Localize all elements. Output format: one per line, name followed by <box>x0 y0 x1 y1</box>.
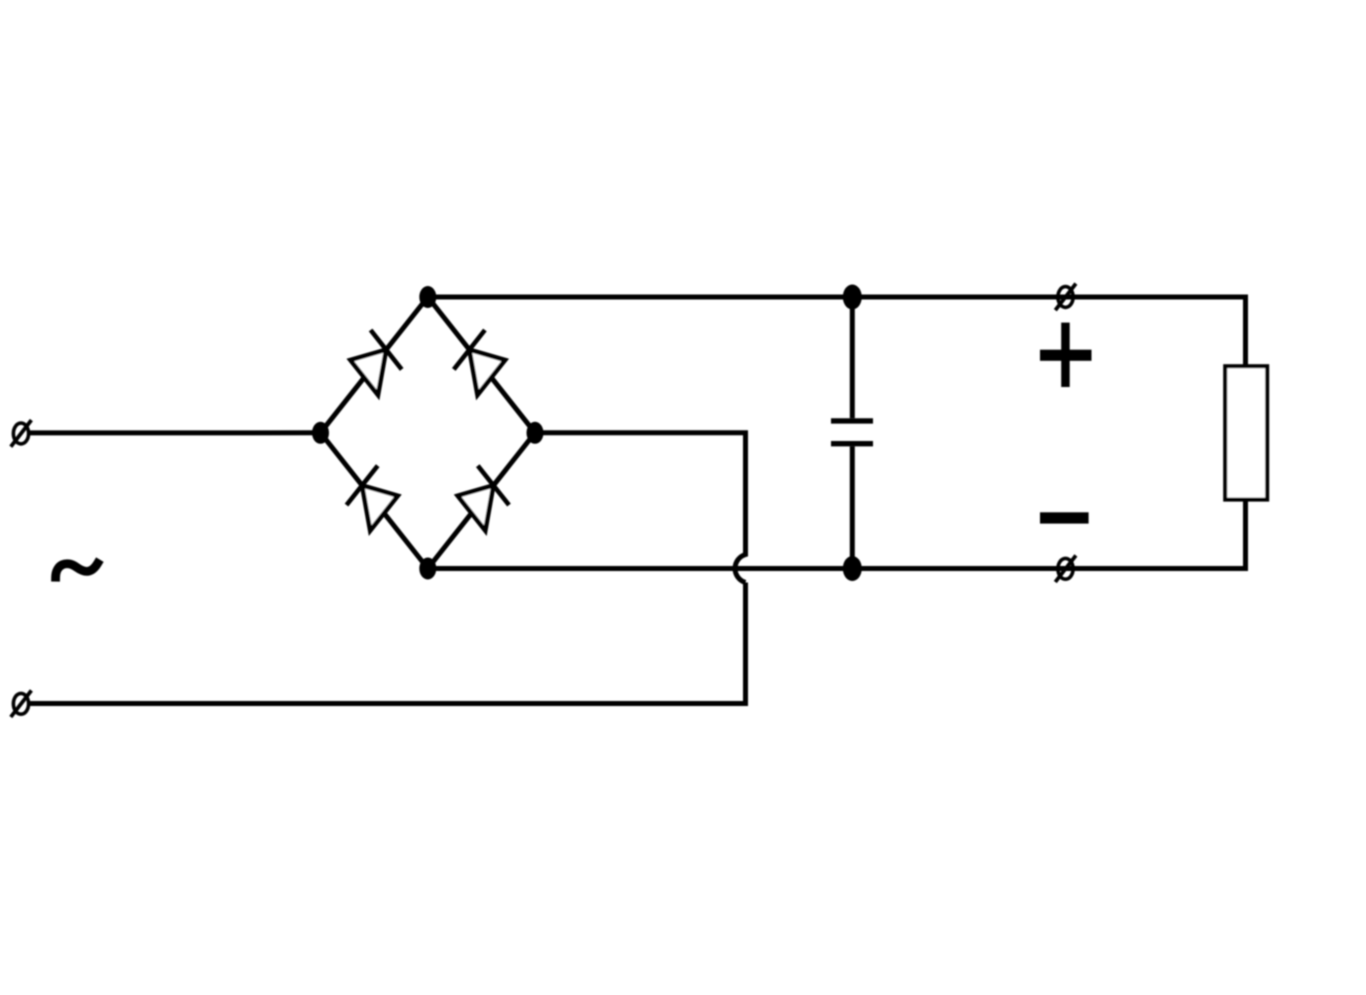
node bridge bottom (-) <box>419 558 436 580</box>
node junction + rail / capacitor <box>843 285 862 310</box>
terminal DC output - <box>1055 555 1076 582</box>
diode D2 (top-right, cathode to +) <box>454 330 505 395</box>
node bridge right (AC) <box>527 422 544 444</box>
AC source tilde symbol <box>56 563 98 577</box>
wire: AC input top (left terminal to bridge left node) <box>29 430 321 435</box>
diode D4 (bottom-right, cathode to AC right) <box>458 466 509 531</box>
resistor R1 (load) <box>1225 366 1267 499</box>
wire: + rail from bridge top to load <box>428 297 1246 366</box>
wire: capacitor bottom lead <box>850 446 855 568</box>
node bridge left (AC) <box>312 422 329 444</box>
node junction - rail / capacitor <box>843 556 862 581</box>
terminal AC input upper <box>11 420 32 447</box>
terminal AC input lower <box>11 690 32 717</box>
label - (negative output) <box>1040 512 1089 523</box>
diode D1 (left-top, cathode to +) <box>350 330 401 395</box>
terminal DC output + <box>1055 284 1076 311</box>
node bridge top (+) <box>419 286 436 308</box>
wire: capacitor top lead <box>850 297 855 418</box>
bridge diamond edges <box>321 297 536 569</box>
wire: - rail from bridge bottom to load <box>428 500 1246 569</box>
capacitor C1 plates <box>831 421 873 444</box>
wire: bridge right node to lower AC run, with hop over - rail <box>29 433 746 704</box>
diode D3 (left-bottom, cathode to AC left) <box>347 466 398 531</box>
label + (positive output) <box>1040 323 1092 387</box>
